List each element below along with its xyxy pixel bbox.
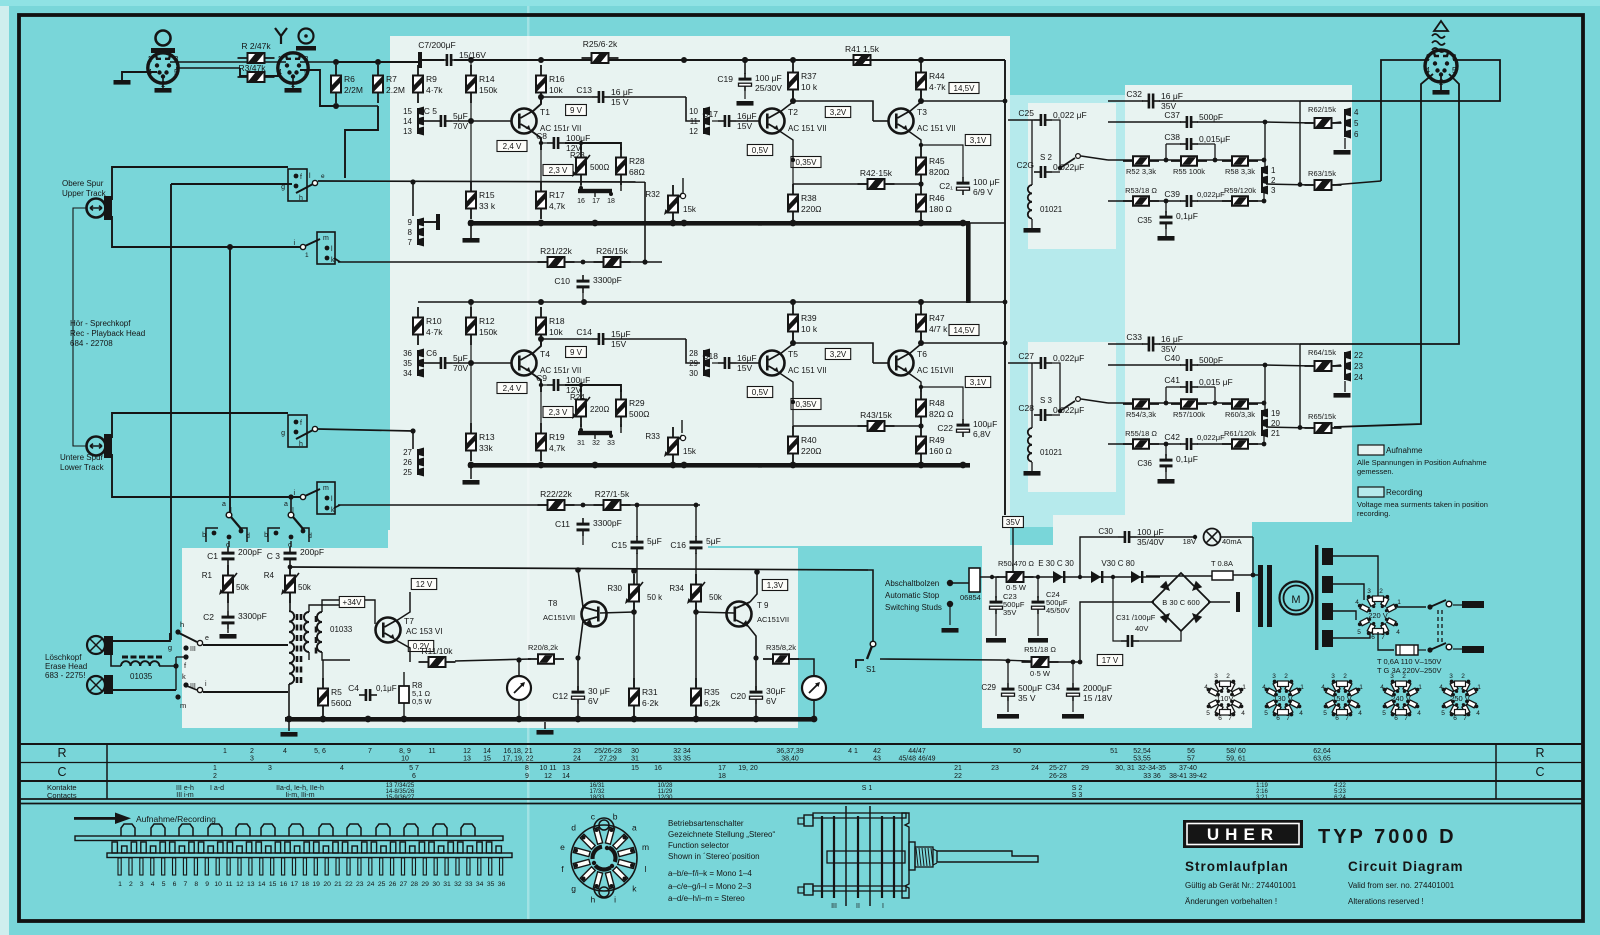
wire R2/R3 to DIN2 [264,61,286,63]
svg-text:220Ω: 220Ω [801,204,822,214]
svg-text:C36: C36 [1137,459,1152,468]
svg-text:14: 14 [258,881,266,888]
svg-text:01021: 01021 [1040,448,1063,457]
svg-text:4: 4 [151,881,155,888]
svg-text:220Ω: 220Ω [590,405,609,414]
wire R63 to DIN loop [1333,181,1381,185]
svg-text:a–b/e–f/i–k = Mono 1–4: a–b/e–f/i–k = Mono 1–4 [668,869,752,878]
svg-text:R28: R28 [629,156,645,166]
svg-text:34: 34 [403,369,412,378]
svg-text:R50/470 Ω: R50/470 Ω [998,559,1034,568]
svg-text:R33: R33 [645,432,660,441]
ground DIN1 pin2 [162,76,164,88]
svg-text:2: 2 [1284,673,1288,680]
microphone symbol [156,31,171,46]
svg-text:0,35V: 0,35V [796,400,818,409]
resistor R6 2/2M [335,65,337,103]
wire C8 R23 R28 top rail [565,143,621,150]
wire C37 row [1108,121,1181,123]
table line below C row [19,780,1583,782]
svg-text:3300pF: 3300pF [238,611,267,621]
svg-text:5: 5 [1323,710,1327,717]
svg-text:200pF: 200pF [300,547,324,557]
wire R16 bottom to C13 [541,96,592,98]
ground at left end of lower bus [470,468,472,479]
resistor R31 6.2k [633,678,635,716]
wire contact to C5 [424,120,434,122]
svg-text:k: k [182,672,186,681]
svg-text:I a-d: I a-d [210,785,224,792]
resistor R16 [540,65,542,103]
capacitor C28 [1034,414,1040,416]
svg-text:Aufnahme: Aufnahme [1386,446,1423,455]
wire R37 junction to T3 base [793,101,873,121]
contact strip upper rail [75,836,503,841]
svg-text:h: h [299,195,303,202]
resistor R43/15k [858,425,895,427]
svg-text:0,015 μF: 0,015 μF [1199,377,1233,387]
wire 35V feed down [1012,528,1014,572]
transformer 01033 core dashed [296,614,299,683]
voltage box 3.1V [965,135,990,146]
svg-text:C19: C19 [717,74,733,84]
resistor R14 [470,65,472,103]
switch box m l k lower [317,482,335,514]
wire T2 emitter down [778,130,793,160]
ground below bus [544,722,546,729]
UHER logo [1183,820,1303,848]
motor symbol [1280,582,1313,615]
svg-text:3: 3 [1271,186,1276,195]
transformer winding wires [1333,556,1378,598]
wire R16 bottom to C13 [541,338,592,340]
svg-text:R54/3,3k: R54/3,3k [1126,410,1156,419]
emitter bus thick [468,221,762,226]
svg-text:0·5 W: 0·5 W [1030,669,1051,678]
svg-text:15k: 15k [683,205,697,214]
svg-text:150k: 150k [479,85,498,95]
legend recording box [1358,487,1384,497]
wire R6 R7 bottom rail [336,105,378,107]
svg-text:5: 5 [1206,710,1210,717]
table line below Kontakte row [19,798,1583,800]
svg-text:Änderungen vorbehalten !: Änderungen vorbehalten ! [1185,897,1277,906]
record symbol [275,28,287,44]
svg-text:1: 1 [305,252,309,259]
svg-text:R49: R49 [929,435,945,445]
white strip middle connect [735,440,1010,545]
meter symbol M2 [802,676,826,700]
legend frame top line [19,803,1583,805]
svg-text:01035: 01035 [130,672,153,681]
DIN socket input 2 [278,53,308,83]
wire R32 to bus [672,455,674,465]
resistor R54/3,3k [1123,403,1159,405]
wires C3 R4 column [290,541,292,547]
svg-text:R59/120k: R59/120k [1224,186,1256,195]
svg-text:e: e [205,635,209,642]
svg-text:a: a [222,501,226,508]
R34 to R35 column [695,602,697,687]
svg-text:9: 9 [205,881,209,888]
capacitor C8 [547,142,553,144]
svg-text:recording.: recording. [1357,509,1390,518]
svg-text:5: 5 [1357,629,1361,636]
svg-text:R10: R10 [426,316,442,326]
svg-text:01021: 01021 [1040,205,1063,214]
svg-text:683 - 2275!: 683 - 2275! [45,671,85,680]
voltage box 3.2V [825,349,850,360]
resistor R18 [540,307,542,345]
svg-text:1: 1 [1477,684,1481,691]
voltage box 0.5V [747,387,772,398]
wire R11 to R20 row [455,659,531,661]
svg-text:R47: R47 [929,313,945,323]
svg-text:3,1V: 3,1V [970,136,987,145]
svg-text:12 V: 12 V [416,580,433,589]
svg-text:C4: C4 [348,683,359,693]
svg-text:b: b [613,811,618,821]
contact h and blade to e [175,629,180,634]
resistor R40 [792,426,794,464]
svg-text:R14: R14 [479,74,495,84]
svg-text:V30 C 80: V30 C 80 [1101,559,1135,568]
svg-text:C 3: C 3 [267,551,281,561]
svg-text:7: 7 [1286,715,1290,722]
svg-text:40mA: 40mA [1222,537,1242,546]
svg-text:III i-m: III i-m [176,792,194,799]
svg-text:R21/22k: R21/22k [540,246,572,256]
svg-text:g: g [571,883,576,893]
svg-text:C30: C30 [1098,527,1113,536]
contact pins 31-33 [578,431,612,435]
svg-text:2: 2 [250,748,254,755]
capacitor C36 [1165,444,1167,456]
emitter bus thick right part [758,221,970,226]
light cyan band S2/S3 filter column [1010,95,1125,527]
svg-text:g: g [168,643,172,652]
svg-text:12: 12 [544,773,552,780]
wire R22 R27 row [338,504,548,506]
voltage selector 130V [1262,673,1304,722]
wire C10 ground [582,293,584,300]
svg-text:AC 151VII: AC 151VII [917,366,953,375]
svg-text:gemessen.: gemessen. [1357,467,1394,476]
svg-text:e: e [560,842,565,852]
wire T3 collector to R44 [909,332,921,354]
T8 collector emitter column [578,570,583,607]
wire C8 R23 R28 top rail [565,385,621,392]
svg-text:T3: T3 [917,107,927,117]
svg-text:3: 3 [1390,673,1394,680]
svg-text:a: a [284,501,288,508]
svg-text:19: 19 [1271,409,1280,418]
svg-text:12: 12 [236,881,244,888]
svg-text:10 k: 10 k [801,82,818,92]
resistor R13 [470,423,472,461]
svg-text:35/40V: 35/40V [1137,537,1164,547]
svg-text:8: 8 [194,881,198,888]
svg-text:Rec - Playback Head: Rec - Playback Head [70,329,145,338]
svg-text:150 V: 150 V [1332,694,1352,703]
svg-text:2/2M: 2/2M [344,85,363,95]
svg-text:4 1: 4 1 [848,748,858,755]
svg-text:6: 6 [1453,715,1457,722]
svg-text:R12: R12 [479,316,495,326]
wire main power rail [1023,576,1048,578]
wire input rail to T1 base [452,362,512,364]
wire T2 collector to R37 [780,90,793,112]
svg-text:R48: R48 [929,398,945,408]
svg-text:Alle Spannungen in Position: Alle Spannungen in Position Aufnahme [1357,458,1487,467]
svg-text:36: 36 [498,881,506,888]
svg-text:16: 16 [654,765,662,772]
svg-text:36,37,39: 36,37,39 [776,748,803,755]
emitter bus thick right part [758,463,970,468]
switch coupling dashed [1437,610,1439,645]
wire S2 to R52 row [1081,156,1108,160]
svg-text:30 μF: 30 μF [588,686,610,696]
svg-text:23: 23 [991,765,999,772]
resistor R26/15k [594,261,631,263]
mains transformer windings [1322,548,1333,565]
svg-text:5μF: 5μF [706,536,721,546]
contact pins 22 23 24 [1344,352,1346,380]
svg-text:220 V: 220 V [1368,611,1388,620]
svg-text:35 V: 35 V [1018,693,1036,703]
svg-text:T7: T7 [404,616,414,626]
svg-text:E 30 C 30: E 30 C 30 [1038,559,1074,568]
svg-text:16 μF: 16 μF [1161,91,1183,101]
wire k lower to R22 row [334,505,340,508]
svg-text:36: 36 [403,349,412,358]
resistor R60/3,3k [1222,403,1258,405]
svg-text:6: 6 [1218,715,1222,722]
svg-text:11: 11 [225,881,232,888]
svg-text:S 3: S 3 [1072,792,1083,799]
svg-text:20: 20 [323,881,331,888]
svg-text:Valid from ser. no. 27440100: Valid from ser. no. 274401001 [1348,881,1455,890]
wire T3 collector to R44 [909,90,921,112]
svg-text:2: 2 [129,881,133,888]
svg-text:7: 7 [1228,715,1232,722]
wire DIN pin1 loop [1381,60,1429,181]
resistor R38 [792,184,794,222]
table top line [19,743,1583,745]
svg-text:Abschaltbolzen: Abschaltbolzen [885,579,939,588]
scan edge strips [0,0,9,935]
svg-text:63,65: 63,65 [1313,756,1331,763]
resistor R58 3,3k [1222,160,1258,162]
svg-text:27: 27 [400,881,408,888]
resistor R39 [792,304,794,342]
meter symbol M1 [518,660,520,676]
svg-text:6: 6 [1335,715,1339,722]
resistor R47 [920,304,922,342]
wire R37 junction to T3 base [793,343,873,363]
resistor R5 560ohm [322,678,324,716]
voltage box 2.4V [497,383,527,394]
svg-text:16μF: 16μF [737,353,757,363]
svg-text:50k: 50k [236,583,250,592]
svg-text:C29: C29 [981,683,996,692]
svg-text:T 0.8A: T 0.8A [1211,559,1233,568]
capacitor C25 [1034,119,1040,121]
svg-text:110V: 110V [1217,694,1234,703]
svg-text:d: d [246,533,250,540]
svg-text:b: b [202,532,206,539]
svg-text:3: 3 [1367,588,1371,595]
svg-text:15 /18V: 15 /18V [1083,693,1113,703]
transistor T6 [889,351,914,376]
contact strip upper tabs [121,824,135,836]
svg-text:5 7: 5 7 [409,765,419,772]
transformer connection wires [289,593,291,612]
white box S3 filter [1028,342,1116,492]
long rail right side upper [1004,60,1006,515]
rec-playback head lower [87,437,106,456]
svg-text:23: 23 [573,748,581,755]
svg-text:C13: C13 [576,85,592,95]
wire g switch to amp rail [318,181,645,182]
svg-text:R38: R38 [801,193,817,203]
svg-text:21: 21 [334,881,342,888]
svg-text:29: 29 [1081,765,1089,772]
svg-text:4·7k: 4·7k [426,85,443,95]
svg-text:0,1μF: 0,1μF [1176,454,1198,464]
contact strip small tabs row [112,842,117,853]
transformer 01033 secondary winding [304,642,309,652]
svg-text:17 V: 17 V [1102,656,1119,665]
svg-text:500Ω: 500Ω [629,409,650,419]
svg-text:130 V: 130 V [1273,694,1293,703]
svg-text:15k: 15k [683,447,697,456]
svg-text:6V: 6V [588,696,599,706]
wire into filter from amp [1008,362,1034,364]
wire T3 emitter down [907,130,921,150]
svg-text:4: 4 [340,765,344,772]
svg-text:h: h [591,895,596,905]
wire R21 R26 row [338,261,548,263]
svg-text:14: 14 [562,773,570,780]
resistor R29 [620,389,622,427]
svg-text:C39: C39 [1164,189,1180,199]
svg-text:Contacts: Contacts [47,791,77,800]
svg-text:25: 25 [403,468,412,477]
upper rail junctions [468,57,474,63]
wire into filter from amp [1008,119,1034,121]
ground DIN2 pin2 [292,76,294,88]
svg-text:1: 1 [118,881,122,888]
svg-text:13: 13 [247,881,255,888]
T8 base wire [600,612,634,613]
svg-text:6: 6 [1394,715,1398,722]
svg-text:Switching Studs: Switching Studs [885,603,942,612]
svg-text:5μF: 5μF [647,536,662,546]
svg-text:24: 24 [367,881,375,888]
svg-text:R7: R7 [386,74,397,84]
lower amp rail [290,567,868,570]
svg-text:3: 3 [1272,673,1276,680]
svg-text:6/9 V: 6/9 V [973,187,993,197]
svg-text:C2: C2 [203,612,214,622]
svg-text:9 V: 9 V [570,348,583,357]
svg-text:8: 8 [525,765,529,772]
svg-text:R3/47k: R3/47k [239,63,267,73]
svg-text:C17: C17 [702,109,718,119]
svg-text:1: 1 [1418,684,1422,691]
svg-text:a: a [632,823,637,833]
wire rail junctions lower [468,299,474,305]
capacitor C15 5uF [636,536,638,542]
lower channel top rail [418,301,1005,303]
svg-text:R26/15k: R26/15k [596,246,628,256]
mains switch lower [1427,647,1432,652]
wire DIN pin4 loop lower [1334,74,1433,427]
capacitor C2₁ [962,177,964,183]
svg-text:AC151VII: AC151VII [543,613,575,622]
ground below R15 [470,225,472,238]
svg-text:32-34-35: 32-34-35 [1138,765,1166,772]
svg-text:16: 16 [577,198,585,205]
svg-text:29: 29 [421,881,429,888]
svg-text:23: 23 [356,881,364,888]
oscillator coil 01021 [1028,428,1032,436]
svg-text:C: C [1535,765,1544,779]
svg-text:8, 9: 8, 9 [399,748,411,755]
svg-text:3: 3 [268,765,272,772]
wire input rail to T1 base [452,120,512,122]
voltage box 1.3V [762,580,787,591]
svg-text:R65/15k: R65/15k [1308,412,1336,421]
capacitor C32 [1142,100,1148,102]
svg-text:a–d/e–h/i–m = Stereo: a–d/e–h/i–m = Stereo [668,894,745,903]
svg-text:Aufnahme/Recording: Aufnahme/Recording [136,814,216,824]
svg-text:T1: T1 [540,107,550,117]
svg-text:28: 28 [689,349,698,358]
svg-text:2: 2 [1379,588,1383,595]
svg-text:500pF: 500pF [1199,355,1223,365]
svg-text:C37: C37 [1164,110,1180,120]
resistor R42·15k [858,183,895,185]
svg-text:R9: R9 [426,74,437,84]
ground DIN1 pin4 [122,72,157,80]
transistor T2 [760,109,785,134]
svg-text:22: 22 [954,773,962,780]
svg-text:C2₁: C2₁ [939,181,953,191]
top supply rail [421,59,444,61]
wire selector II feed [290,497,292,512]
svg-text:16,18, 21: 16,18, 21 [503,748,532,755]
transformer 01033 third winding [315,616,318,654]
transistor T4 [512,351,537,376]
svg-text:2,4 V: 2,4 V [503,384,522,393]
svg-text:R40: R40 [801,435,817,445]
svg-text:C41: C41 [1164,375,1180,385]
svg-text:9: 9 [408,218,413,227]
svg-text:50k: 50k [298,583,312,592]
bridge rectifier B30C600 [1152,573,1210,631]
white region power supply [982,545,1252,728]
wire lamp to fuse column [1221,536,1253,538]
head assembly mechanical drawing [798,806,1038,906]
selector to switch wires [1395,606,1426,608]
svg-text:2,4 V: 2,4 V [503,142,522,151]
relay 06854 [969,568,980,592]
svg-text:2: 2 [1402,673,1406,680]
wire T3 emitter down [907,372,921,392]
svg-text:R61/120k: R61/120k [1224,429,1256,438]
